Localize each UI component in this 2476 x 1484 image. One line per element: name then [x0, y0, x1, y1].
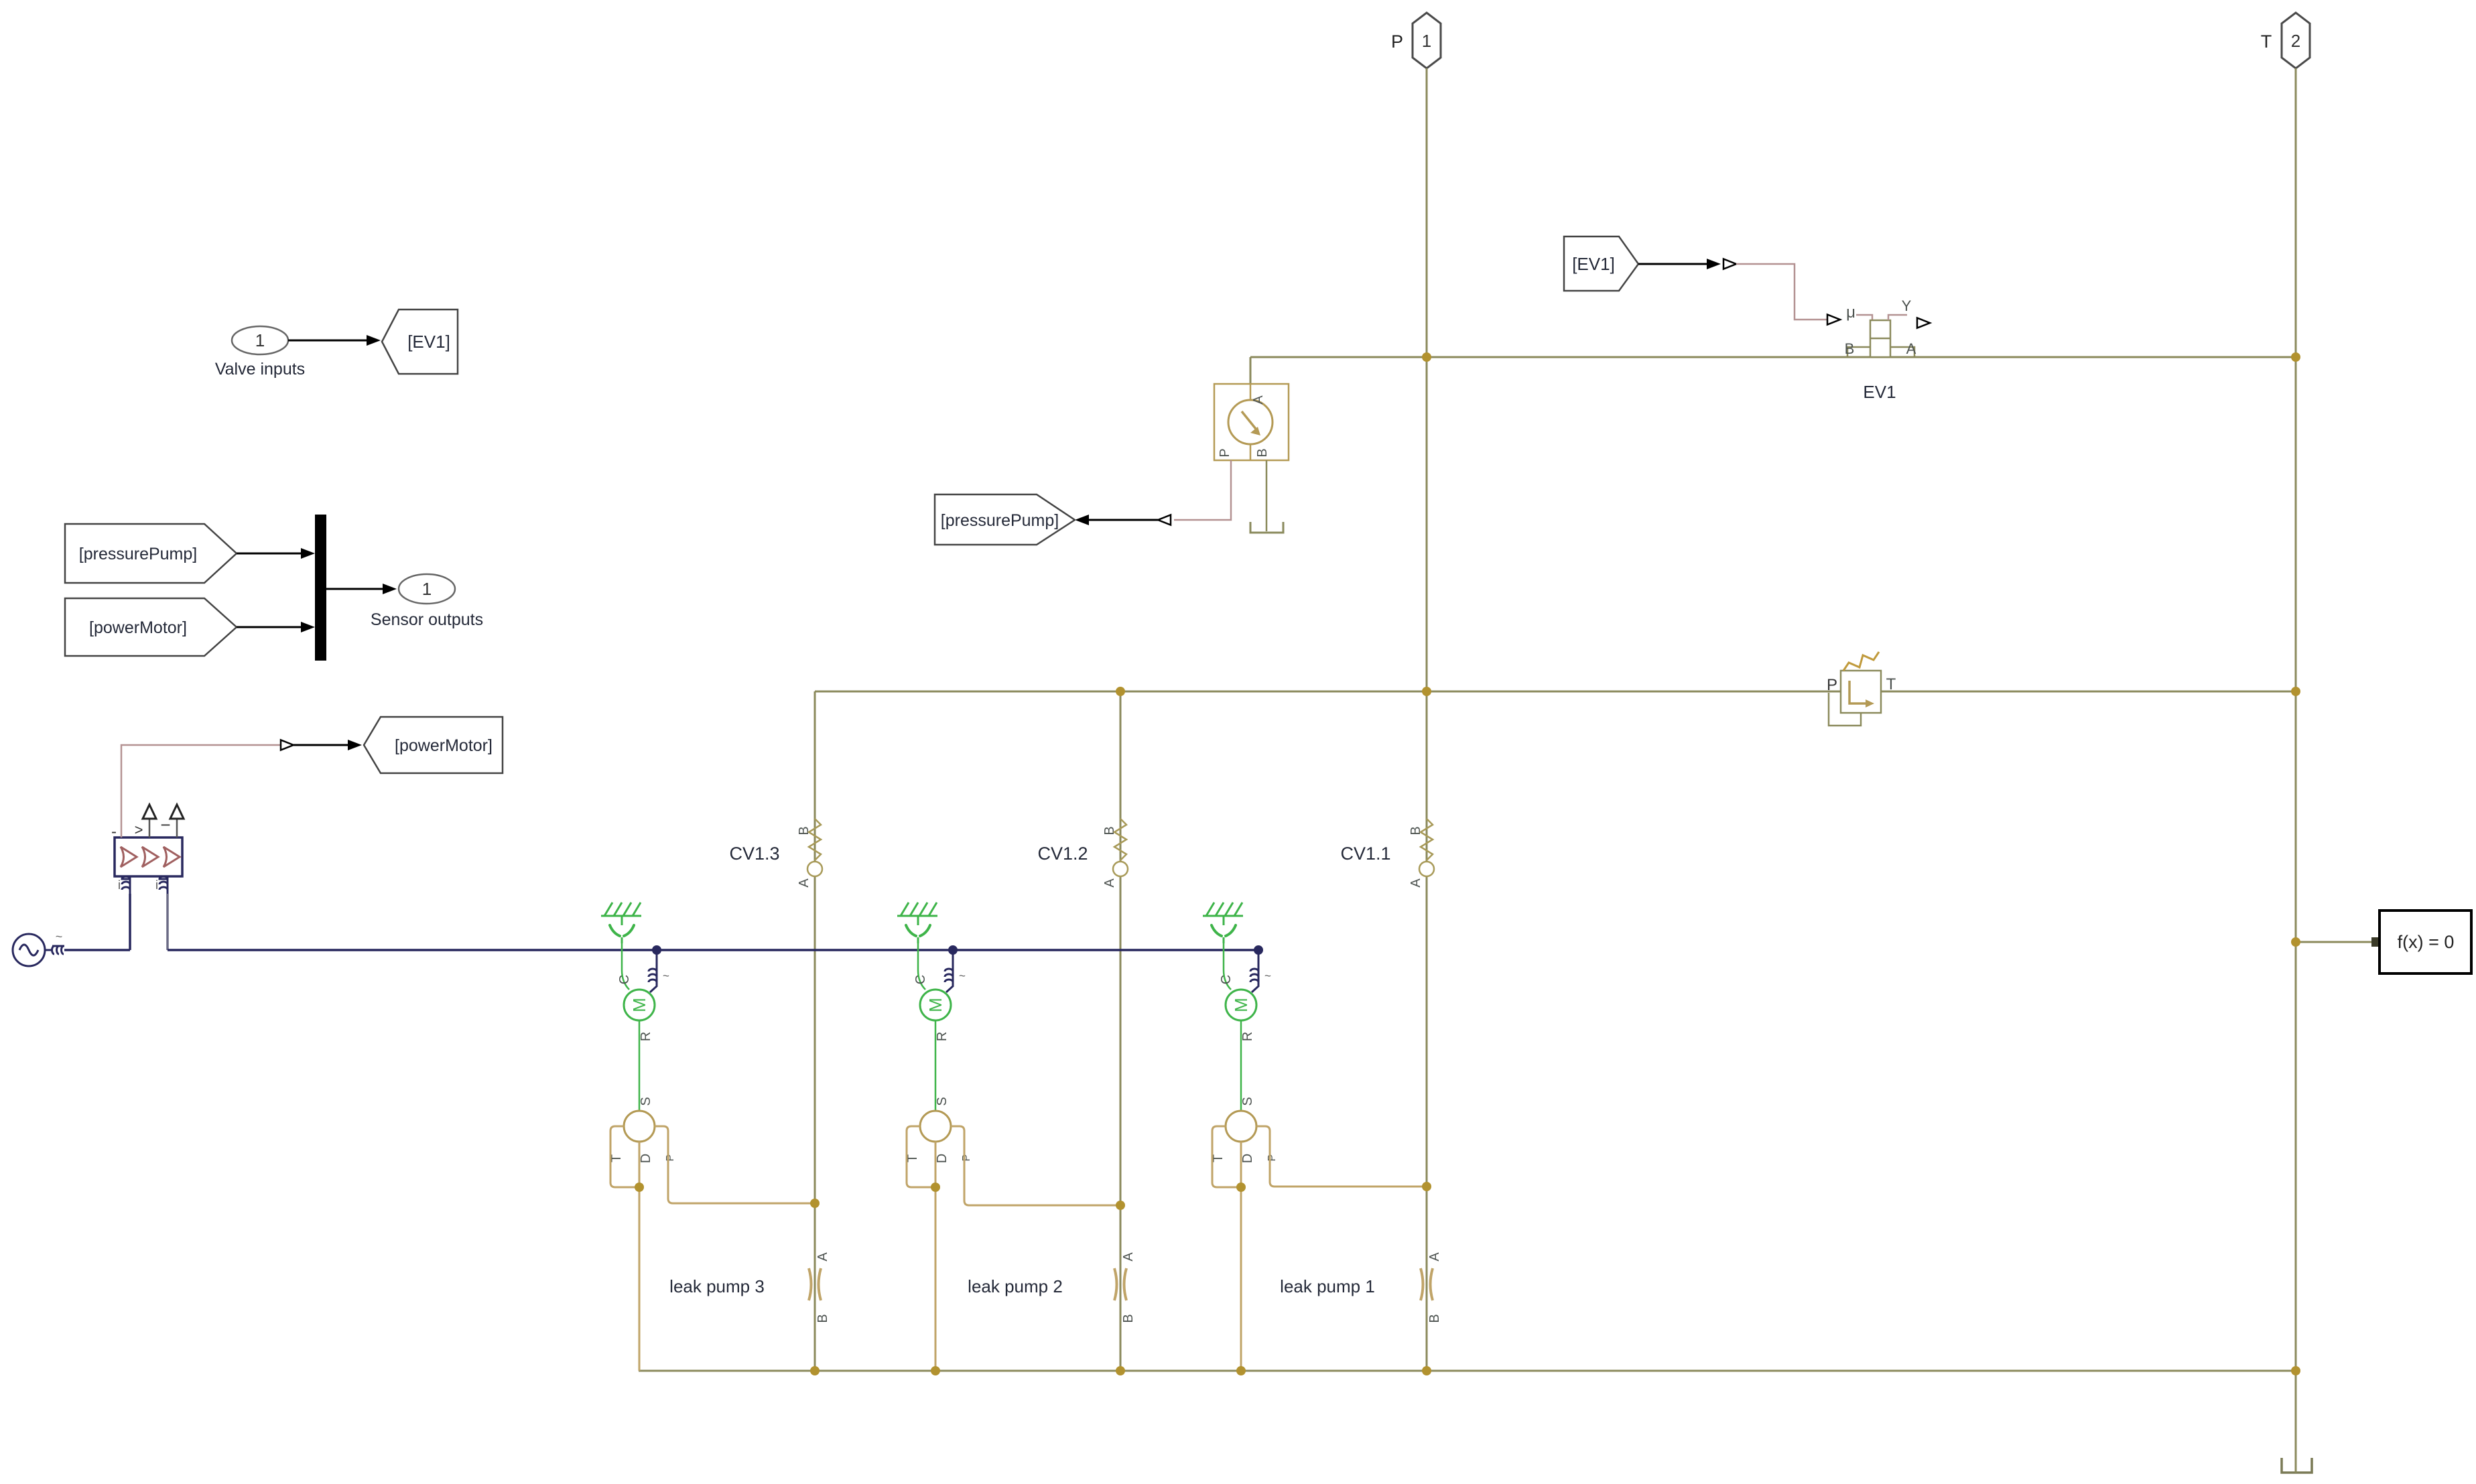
- PS output triangle pressure: [1158, 515, 1171, 525]
- svg-text:D: D: [935, 1154, 950, 1163]
- svg-text:B: B: [816, 1314, 830, 1323]
- wire ground to motor leak pump 2: [913, 943, 928, 990]
- svg-text:M: M: [629, 998, 649, 1012]
- power converter block U1: [115, 837, 182, 876]
- svg-text:D: D: [1240, 1154, 1255, 1163]
- svg-text:i: i: [118, 878, 121, 892]
- node bottom bus-T: [2291, 1366, 2300, 1375]
- wire ground to motor leak pump 1: [1219, 943, 1234, 990]
- from tag [powerMotor]: [65, 598, 237, 656]
- node relief-CV1.2: [1116, 687, 1125, 696]
- wire P line vertical: [1426, 68, 1428, 1371]
- svg-text:P: P: [961, 1154, 972, 1162]
- svg-text:[EV1]: [EV1]: [1572, 254, 1615, 274]
- wire converter right leg: [166, 894, 169, 950]
- svg-text:M: M: [925, 998, 946, 1012]
- valve EV1 A stub: [1890, 340, 1916, 357]
- wire pump T loop leak pump 2: [907, 1126, 935, 1187]
- wire inport to goto EV1: [288, 335, 381, 346]
- svg-text:~: ~: [959, 969, 966, 982]
- svg-text:B: B: [1409, 826, 1423, 835]
- orifice leak pump 3: [809, 1252, 830, 1323]
- svg-text:C: C: [913, 975, 928, 984]
- svg-text:1: 1: [422, 579, 432, 599]
- svg-text:i: i: [155, 878, 158, 892]
- wire powerMotor to mux: [237, 622, 315, 632]
- svg-text:[pressurePump]: [pressurePump]: [941, 511, 1059, 530]
- node solver-T: [2291, 937, 2300, 947]
- svg-text:[pressurePump]: [pressurePump]: [79, 545, 197, 563]
- svg-text:1: 1: [255, 330, 265, 350]
- wire bottom tank bus: [639, 1370, 2296, 1372]
- svg-text:S: S: [935, 1097, 950, 1105]
- orifice leak pump 1: [1421, 1252, 1442, 1323]
- label leak pump 2: [968, 1276, 1063, 1296]
- wire CV1.2 column: [1120, 691, 1122, 1371]
- wire relief line horizontal: [815, 691, 2296, 693]
- node electrical tap leak pump 2: [948, 945, 958, 955]
- svg-text:S: S: [639, 1097, 653, 1105]
- svg-text:CV1.2: CV1.2: [1037, 844, 1088, 864]
- svg-text:A: A: [1121, 1252, 1136, 1262]
- goto tag [pressurePump]: [935, 494, 1075, 545]
- svg-text:S: S: [1240, 1097, 1255, 1105]
- wire source to converter: [64, 949, 130, 951]
- label leak pump 3: [669, 1276, 765, 1296]
- solver port: [2371, 937, 2381, 947]
- svg-text:T: T: [1886, 675, 1896, 693]
- wire sensor P signal: [1174, 460, 1231, 520]
- svg-text:A: A: [816, 1252, 830, 1262]
- svg-text:A: A: [1409, 878, 1423, 888]
- mechanical ground leak pump 3: [601, 902, 641, 943]
- valve EV1 body: [1870, 320, 1890, 357]
- node relief-P: [1422, 687, 1431, 696]
- PS input triangle EV1: [1723, 259, 1736, 269]
- wire source stub: [45, 949, 52, 951]
- wire from EV1 tag: [1638, 259, 1721, 269]
- svg-text:T: T: [2261, 31, 2272, 52]
- svg-text:P: P: [1391, 31, 1403, 52]
- wire pump drain leak pump 3: [639, 1142, 641, 1371]
- node EV1line-T: [2291, 352, 2300, 362]
- motor coil leak pump 3: [649, 950, 669, 992]
- wire mu stub: [1856, 315, 1872, 320]
- port T (connection port 2): [2261, 13, 2310, 68]
- converter up triangle 2: [170, 805, 184, 837]
- svg-text:leak pump 3: leak pump 3: [669, 1276, 765, 1296]
- svg-text:EV1: EV1: [1863, 382, 1896, 402]
- wire pump T loop leak pump 3: [610, 1126, 639, 1187]
- svg-text:B: B: [1427, 1314, 1442, 1323]
- mechanical ground leak pump 1: [1203, 902, 1243, 943]
- node bottom bus at CV leak pump 3: [810, 1366, 820, 1375]
- node bottom bus drain leak pump 2: [931, 1366, 940, 1375]
- pump port labels leak pump 3: [609, 1154, 676, 1163]
- svg-text:A: A: [1427, 1252, 1442, 1262]
- wire pressurePump to mux: [237, 548, 315, 559]
- valve EV1 B stub: [1845, 340, 1870, 357]
- svg-text:R: R: [639, 1032, 653, 1041]
- orifice leak pump 2: [1114, 1252, 1136, 1323]
- svg-text:~: ~: [56, 930, 63, 943]
- wire sensor B to tank: [1266, 460, 1268, 531]
- wire to goto pressurePump: [1075, 515, 1158, 525]
- svg-text:Sensor outputs: Sensor outputs: [371, 610, 483, 629]
- svg-text:A: A: [1102, 878, 1117, 888]
- node discharge leak pump 1: [1422, 1182, 1431, 1191]
- motor leak pump 2: [920, 990, 951, 1020]
- svg-text:μ: μ: [1846, 303, 1855, 322]
- svg-text:[powerMotor]: [powerMotor]: [395, 736, 493, 755]
- wire pump T loop leak pump 1: [1212, 1126, 1241, 1187]
- wire T line vertical: [2295, 68, 2297, 1456]
- pump leak pump 2: [920, 1111, 951, 1142]
- PS output triangle powerMotor: [281, 740, 294, 750]
- source series coil: [52, 930, 64, 954]
- svg-text:B: B: [1255, 448, 1270, 457]
- svg-text:A: A: [797, 878, 811, 888]
- node EV1line-P: [1422, 352, 1431, 362]
- wire mux to outport: [326, 584, 397, 594]
- tank reference at T: [2282, 1456, 2312, 1473]
- svg-text:R: R: [1240, 1032, 1255, 1041]
- wire pump drain leak pump 2: [935, 1142, 937, 1371]
- wire to goto powerMotor: [294, 740, 362, 750]
- wire pump drain leak pump 1: [1240, 1142, 1242, 1371]
- svg-text:M: M: [1231, 998, 1251, 1012]
- svg-text:>: >: [135, 821, 143, 838]
- relief valve spring: [1843, 652, 1879, 671]
- solver block f(x)=0: [2380, 910, 2471, 973]
- check valve CV1.2: [1037, 819, 1128, 888]
- converter port labels: [111, 815, 171, 841]
- svg-text:A: A: [1906, 340, 1916, 357]
- wire pump discharge leak pump 3: [655, 1126, 815, 1203]
- goto tag [powerMotor]: [364, 717, 503, 773]
- node discharge leak pump 2: [1116, 1201, 1125, 1210]
- mechanical ground leak pump 2: [897, 902, 937, 943]
- wire motor shaft leak pump 2: [935, 1020, 950, 1111]
- svg-text:B: B: [797, 826, 811, 835]
- from tag [EV1]: [1564, 237, 1638, 291]
- node pump drain leak pump 3: [635, 1183, 644, 1192]
- wire EV1 horizontal line: [1250, 356, 2296, 358]
- wire pump discharge leak pump 1: [1256, 1126, 1427, 1187]
- relief valve body: [1841, 671, 1881, 713]
- converter bottom coil 2: [155, 876, 168, 894]
- motor leak pump 1: [1226, 990, 1256, 1020]
- svg-text:C: C: [617, 975, 632, 984]
- relief valve port labels: [1827, 675, 1896, 694]
- svg-text:P: P: [665, 1154, 676, 1162]
- svg-text:CV1.3: CV1.3: [729, 844, 779, 864]
- svg-text:CV1.1: CV1.1: [1340, 844, 1390, 864]
- wire converter left leg: [129, 894, 131, 950]
- motor coil leak pump 2: [945, 950, 966, 992]
- node pump drain leak pump 1: [1236, 1183, 1246, 1192]
- svg-text:leak pump 1: leak pump 1: [1280, 1276, 1375, 1296]
- svg-text:C: C: [1219, 975, 1234, 984]
- svg-text:Valve inputs: Valve inputs: [215, 360, 305, 379]
- node discharge leak pump 3: [810, 1199, 820, 1208]
- svg-text:A: A: [1251, 395, 1266, 405]
- svg-text:[EV1]: [EV1]: [407, 332, 450, 352]
- svg-text:B: B: [1845, 340, 1855, 357]
- check valve CV1.1: [1340, 819, 1434, 888]
- svg-text:B: B: [1121, 1314, 1136, 1323]
- wire CV1.3 column: [814, 691, 816, 1371]
- svg-text:f(x) = 0: f(x) = 0: [2398, 932, 2455, 952]
- motor coil leak pump 1: [1250, 950, 1271, 992]
- converter bottom coil 1: [118, 876, 130, 894]
- pump leak pump 3: [624, 1111, 655, 1142]
- svg-text:leak pump 2: leak pump 2: [968, 1276, 1063, 1296]
- wire PS power signal: [121, 745, 281, 837]
- svg-text:~: ~: [1264, 969, 1271, 982]
- mu port label: [1846, 303, 1855, 322]
- wire motor shaft leak pump 3: [639, 1020, 653, 1111]
- svg-text:−: −: [160, 815, 170, 835]
- wire ground to motor leak pump 3: [617, 943, 632, 990]
- wire solver line: [2296, 941, 2377, 943]
- mux: [315, 515, 326, 661]
- pump port labels leak pump 2: [905, 1154, 972, 1163]
- label leak pump 1: [1280, 1276, 1375, 1296]
- svg-text:P: P: [1218, 448, 1232, 457]
- svg-text:R: R: [935, 1032, 950, 1041]
- svg-text:2: 2: [2291, 31, 2300, 51]
- node bottom bus at CV leak pump 2: [1116, 1366, 1125, 1375]
- wire electrical bus: [168, 949, 1258, 951]
- node electrical tap leak pump 1: [1254, 945, 1263, 955]
- valve EV1 label: [1863, 382, 1896, 402]
- PS triangle at mu: [1827, 315, 1840, 325]
- valve EV1 Y output: [1888, 297, 1930, 328]
- wire motor shaft leak pump 1: [1240, 1020, 1255, 1111]
- check valve CV1.3: [729, 819, 822, 888]
- from tag [pressurePump]: [65, 524, 237, 583]
- AC voltage source: [13, 934, 45, 966]
- pump port labels leak pump 1: [1211, 1154, 1278, 1163]
- svg-text:Y: Y: [1902, 297, 1912, 314]
- svg-text:B: B: [1102, 826, 1117, 835]
- outport 1 Sensor outputs: [371, 574, 483, 629]
- port P (connection port 1): [1391, 13, 1441, 68]
- svg-text:P: P: [1827, 676, 1837, 694]
- converter up triangle 1: [143, 805, 156, 837]
- wire pump discharge leak pump 2: [951, 1126, 1120, 1205]
- node pump drain leak pump 2: [931, 1183, 940, 1192]
- svg-text:-: -: [111, 823, 117, 841]
- node bottom bus drain leak pump 1: [1236, 1366, 1246, 1375]
- svg-text:1: 1: [1422, 31, 1431, 51]
- svg-text:~: ~: [663, 969, 669, 982]
- svg-text:D: D: [639, 1154, 653, 1163]
- wire corner to pressure sensor: [1250, 357, 1252, 384]
- motor leak pump 3: [624, 990, 655, 1020]
- node electrical tap leak pump 3: [652, 945, 661, 955]
- pressure sensor block: [1214, 384, 1289, 460]
- inport 1 Valve inputs: [215, 326, 305, 379]
- tank reference at sensor: [1250, 522, 1283, 533]
- goto tag [EV1]: [382, 310, 458, 374]
- relief valve pilot loop: [1829, 693, 1861, 726]
- svg-text:[powerMotor]: [powerMotor]: [89, 618, 187, 637]
- node bottom bus at CV leak pump 1: [1422, 1366, 1431, 1375]
- svg-text:P: P: [1266, 1154, 1278, 1162]
- pump leak pump 1: [1226, 1111, 1256, 1142]
- node relief-T: [2291, 687, 2300, 696]
- wire PS to valve mu: [1736, 264, 1827, 320]
